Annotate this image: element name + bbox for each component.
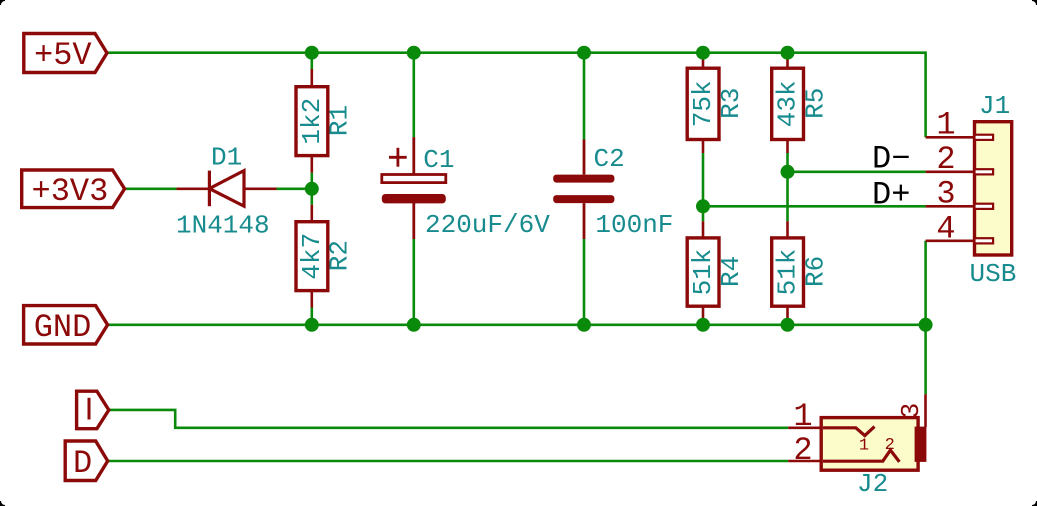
label +5V	[24, 34, 107, 75]
wire R3 bottom to D+ node	[702, 153, 705, 206]
resistor R4	[687, 221, 746, 325]
junction node +5V/C2	[577, 46, 591, 60]
wire R2 bottom to GND	[310, 308, 313, 325]
svg-text:J1: J1	[979, 91, 1010, 121]
wire R1 bottom to node A to R2 top	[310, 173, 313, 205]
svg-text:2: 2	[793, 432, 812, 469]
wire +3V3 to D1	[125, 188, 177, 191]
junction node +5V/R3	[696, 46, 710, 60]
capacitor C1	[382, 137, 446, 239]
connector J2	[788, 394, 926, 470]
svg-text:R6: R6	[800, 256, 830, 287]
svg-text:100nF: 100nF	[595, 210, 673, 240]
svg-text:1: 1	[793, 398, 812, 435]
svg-text:C1: C1	[423, 145, 454, 175]
svg-text:4: 4	[936, 210, 955, 247]
junction node D+	[696, 199, 710, 213]
svg-text:R5: R5	[800, 88, 830, 119]
wire +5V rail	[107, 53, 926, 138]
wire C1 bottom	[412, 239, 415, 325]
wire GND to J2 pin3	[924, 325, 927, 394]
svg-text:51k: 51k	[773, 249, 803, 296]
svg-text:R1: R1	[325, 105, 355, 136]
resistor R5	[772, 53, 831, 153]
wire C2 bottom	[583, 239, 586, 325]
resistor R6	[772, 221, 831, 325]
junction node GND/C2	[577, 318, 591, 332]
wire GND rail	[108, 323, 926, 326]
svg-text:75k: 75k	[688, 80, 718, 127]
wire R5 bottom to D- node to R6 top	[786, 153, 789, 221]
svg-text:D+: D+	[872, 176, 910, 213]
resistor R2	[296, 205, 355, 308]
resistor R3	[687, 53, 746, 153]
svg-text:+5V: +5V	[34, 37, 92, 74]
junction node GND/J1	[919, 318, 933, 332]
corner mark bottom-right	[1032, 501, 1037, 506]
svg-text:220uF/6V: 220uF/6V	[425, 210, 550, 240]
svg-text:2: 2	[885, 436, 895, 455]
junction node GND/R4	[696, 318, 710, 332]
svg-text:GND: GND	[34, 309, 92, 346]
connector J1	[926, 122, 1012, 255]
wire C2 top	[583, 53, 586, 140]
svg-text:R4: R4	[716, 256, 746, 287]
resistor R1	[296, 69, 355, 173]
wire D+ node to R4 top	[702, 206, 705, 221]
svg-text:D: D	[73, 445, 92, 482]
wire I to J2 pin1	[109, 410, 788, 428]
svg-text:3: 3	[936, 176, 955, 213]
junction node A (+3V3/R1/R2)	[305, 182, 319, 196]
wire R1 top stub	[310, 53, 313, 69]
junction node GND/C1	[407, 318, 421, 332]
svg-text:1: 1	[936, 107, 955, 144]
svg-text:2: 2	[936, 141, 955, 178]
corner mark top-left	[0, 0, 5, 5]
wire D1 to node A	[277, 188, 312, 191]
svg-text:D−: D−	[872, 141, 910, 178]
label D	[65, 441, 108, 482]
junction node +5V/R1	[305, 46, 319, 60]
label +3V3	[22, 170, 125, 210]
junction node +5V/R5	[781, 46, 795, 60]
wire D to J2 pin2	[108, 460, 789, 463]
svg-text:J2: J2	[857, 469, 888, 499]
wire D+ net to J1 pin3	[703, 205, 926, 208]
wire D- net to J1 pin2	[788, 171, 926, 174]
label GND	[24, 306, 108, 346]
svg-text:1: 1	[859, 436, 869, 455]
junction node +5V/C1	[407, 46, 421, 60]
label I	[77, 391, 109, 429]
capacitor C2	[553, 140, 614, 240]
svg-text:USB: USB	[970, 259, 1017, 289]
svg-text:51k: 51k	[688, 249, 718, 296]
svg-text:+3V3: +3V3	[32, 173, 109, 210]
wire C1 top	[412, 53, 415, 137]
diode D1	[177, 171, 277, 207]
svg-text:R3: R3	[716, 88, 746, 119]
junction node D-	[781, 165, 795, 179]
svg-text:1N4148: 1N4148	[176, 211, 270, 241]
svg-text:1k2: 1k2	[297, 98, 327, 145]
svg-text:C2: C2	[594, 144, 625, 174]
svg-text:43k: 43k	[773, 80, 803, 127]
svg-text:4k7: 4k7	[297, 233, 327, 280]
svg-text:3: 3	[896, 403, 926, 419]
junction node GND/R6	[781, 318, 795, 332]
svg-text:R2: R2	[325, 240, 355, 271]
junction node GND/R2	[305, 318, 319, 332]
wire J1 pin4 to GND	[924, 241, 927, 325]
corner mark bottom-left	[0, 501, 5, 506]
svg-text:D1: D1	[211, 143, 242, 173]
corner mark top-right	[1032, 0, 1037, 5]
